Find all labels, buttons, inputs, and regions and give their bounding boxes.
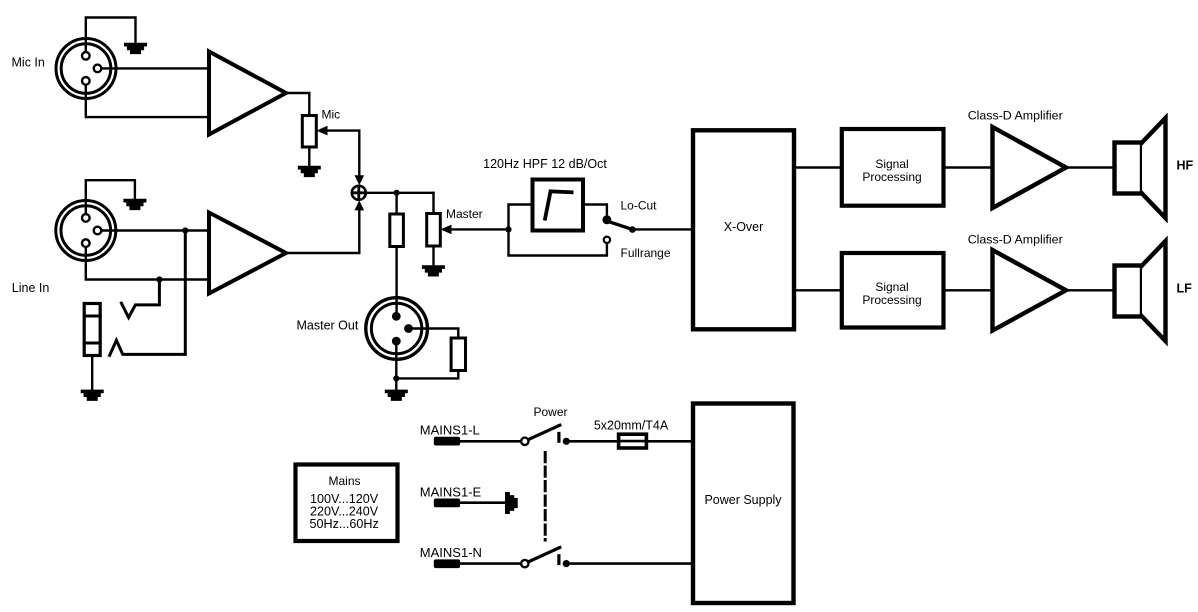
wiper arrow of Master pot (440, 225, 451, 235)
wire jack sleeve to ground (91, 356, 93, 391)
wire node C down to XLR3 pin1 (395, 193, 397, 316)
wire XLR2 pin2 to amp U2 + input (98, 229, 210, 231)
phone jack J3 (1/4 inch) (84, 304, 100, 356)
resistor R4 (output load) (451, 338, 465, 371)
terminal MAINS1-L (434, 437, 460, 446)
wire pole to X-Over (632, 228, 693, 230)
speaker LS2 LF driver (1115, 266, 1143, 317)
XLR J2 pin 2 (94, 227, 102, 235)
ground G4 (below jack) (81, 390, 104, 401)
Mains ratings box (296, 465, 398, 542)
svg-text:Power Supply: Power Supply (704, 493, 782, 507)
ground G6 (below XLR3) (385, 390, 408, 401)
Signal Processing block HF (842, 129, 944, 206)
node B (pin3 net junction) (156, 276, 162, 282)
switch SW1 Lo-Cut contact (604, 216, 611, 223)
svg-text:MAINS1-E: MAINS1-E (420, 485, 482, 500)
wire node C down to XLR3 pin1 (inside connector) (395, 298, 397, 316)
summing node S1 (352, 186, 366, 200)
wire summer to master pot (366, 192, 434, 194)
Class-D amplifier A2 (LF) (993, 250, 1067, 331)
wiper arrow of Mic pot (316, 126, 327, 136)
arrow into summer from top (355, 175, 365, 185)
ground G1 (mic input shield) (124, 43, 147, 54)
switch SW1 lever (609, 222, 630, 229)
wire amp A2 to LF speaker (1066, 289, 1115, 291)
XLR J4 pin 1 (392, 312, 401, 321)
svg-text:Processing: Processing (862, 293, 921, 307)
svg-text:Signal: Signal (875, 280, 908, 294)
wire L terminal to switch (459, 440, 521, 443)
switch SW1 pole dot (629, 226, 636, 233)
wire SP LF to Class-D amp (944, 289, 993, 291)
svg-text:Signal: Signal (875, 157, 908, 171)
node A (pin2 net junction) (182, 227, 188, 233)
node D (HPF input junction) (505, 226, 511, 232)
resistor R2 (master out build-out) (390, 214, 404, 247)
node C (master bus junction) (394, 190, 400, 196)
svg-text:HF: HF (1177, 159, 1194, 173)
switch SW2b lever (529, 548, 560, 562)
fuse F1 5x20mm T4A (619, 434, 647, 448)
svg-text:Power: Power (534, 405, 568, 419)
potentiometer R1 Mic (302, 116, 316, 148)
svg-text:Fullrange: Fullrange (621, 246, 671, 260)
svg-text:Line In: Line In (12, 281, 50, 295)
wire bypass to Fullrange contact (509, 229, 607, 255)
X-Over block (693, 130, 794, 329)
Class-D amplifier A1 (HF) (993, 127, 1067, 208)
switch SW1 Fullrange contact (604, 237, 610, 243)
XLR connector J4 Master Out (366, 298, 428, 360)
XLR J2 pin 1 (82, 214, 90, 222)
wire XLR1 pin3 to amp U1 - input (86, 81, 209, 117)
switch SW2b throw tick (557, 556, 560, 564)
XLR J1 pin 3 (82, 77, 90, 85)
svg-text:Class-D Amplifier: Class-D Amplifier (968, 109, 1063, 123)
terminal MAINS1-E (434, 499, 460, 508)
ground G2 (below Mic pot) (298, 166, 321, 177)
svg-text:MAINS1-N: MAINS1-N (420, 545, 482, 560)
switch SW2b pole dot (563, 560, 570, 567)
svg-text:Lo-Cut: Lo-Cut (621, 199, 658, 213)
XLR connector J2 Line In (56, 201, 116, 261)
svg-text:Class-D Amplifier: Class-D Amplifier (968, 233, 1063, 247)
switch linkage dashed line (544, 453, 547, 541)
wire SP HF to Class-D amp (944, 166, 993, 168)
HPF response curve icon (545, 191, 572, 218)
svg-text:Processing: Processing (862, 170, 921, 184)
wire XLR3 pin2 through resistor to pin3 (396, 329, 458, 379)
svg-text:120Hz HPF 12 dB/Oct: 120Hz HPF 12 dB/Oct (483, 157, 607, 171)
arrow into summer from bottom (355, 200, 365, 210)
svg-text:X-Over: X-Over (724, 220, 764, 234)
svg-text:5x20mm/T4A: 5x20mm/T4A (594, 419, 669, 433)
switch SW2a pole dot (563, 438, 570, 445)
wire U1 output to Mic pot (286, 93, 309, 166)
wire X-Over to Signal Processing HF (794, 166, 842, 168)
jack ring switching contact (V) (121, 280, 159, 318)
wire down to Master pot (432, 193, 434, 266)
wire E terminal to chassis earth (459, 501, 506, 504)
wire switch to fuse to Power Supply (566, 440, 693, 443)
svg-text:Mains: Mains (328, 474, 360, 488)
wire amp A1 to HF speaker (1066, 166, 1115, 168)
XLR J4 pin 2 (404, 324, 413, 333)
svg-text:Mic In: Mic In (12, 56, 45, 70)
Power Supply block (693, 404, 794, 604)
wire XLR2 pin3 to amp U2 - input (86, 243, 209, 279)
wire XLR2 pin1 to chassis ground (86, 180, 135, 218)
terminal MAINS1-N (434, 559, 460, 568)
wire X-Over to Signal Processing LF (794, 289, 842, 291)
speaker LS1 HF driver (1115, 143, 1143, 194)
chassis earth symbol (505, 492, 518, 514)
wire HPF out to Lo-Cut contact (583, 205, 607, 217)
wire Master wiper to HPF junction (451, 228, 509, 230)
HPF block 120Hz (533, 180, 584, 231)
switch SW2b contact (N) (521, 560, 528, 567)
switch SW2a throw tick (557, 434, 560, 442)
wire XLR3 pin3 to ground (395, 341, 397, 390)
op-amp U1 mic preamp (209, 52, 286, 135)
svg-text:Master Out: Master Out (297, 319, 359, 333)
svg-text:Master: Master (446, 207, 483, 221)
XLR J1 pin 1 (82, 52, 90, 60)
svg-text:Mic: Mic (322, 108, 341, 122)
svg-text:MAINS1-L: MAINS1-L (420, 423, 480, 438)
jack tip switching contact and wire to hot net (110, 231, 186, 356)
potentiometer R3 Master (427, 214, 441, 247)
wire XLR1 pin2 to amp U1 + input (98, 67, 210, 69)
switch SW2a lever (529, 425, 560, 439)
ground G3 (line input shield) (123, 199, 146, 210)
wire Mic wiper to summing node (327, 131, 360, 177)
wire XLR1 pin1 to chassis ground (86, 18, 136, 56)
wire U2 output to summing node (286, 209, 359, 253)
svg-text:50Hz...60Hz: 50Hz...60Hz (310, 517, 379, 531)
XLR J2 pin 3 (82, 239, 90, 247)
node E (output ground junction) (393, 375, 399, 381)
ground G5 (below Master pot) (422, 265, 445, 276)
XLR connector J1 Mic In (56, 39, 116, 99)
switch SW2a contact (L) (521, 438, 528, 445)
wire N switch to Power Supply (566, 562, 693, 565)
op-amp U2 line preamp (209, 213, 286, 294)
wire node D up into HPF (509, 205, 533, 230)
XLR J1 pin 2 (94, 65, 102, 73)
wire N terminal to switch (459, 562, 521, 565)
Signal Processing block LF (842, 253, 944, 328)
XLR J4 pin 3 (392, 337, 401, 346)
svg-text:LF: LF (1177, 282, 1193, 296)
